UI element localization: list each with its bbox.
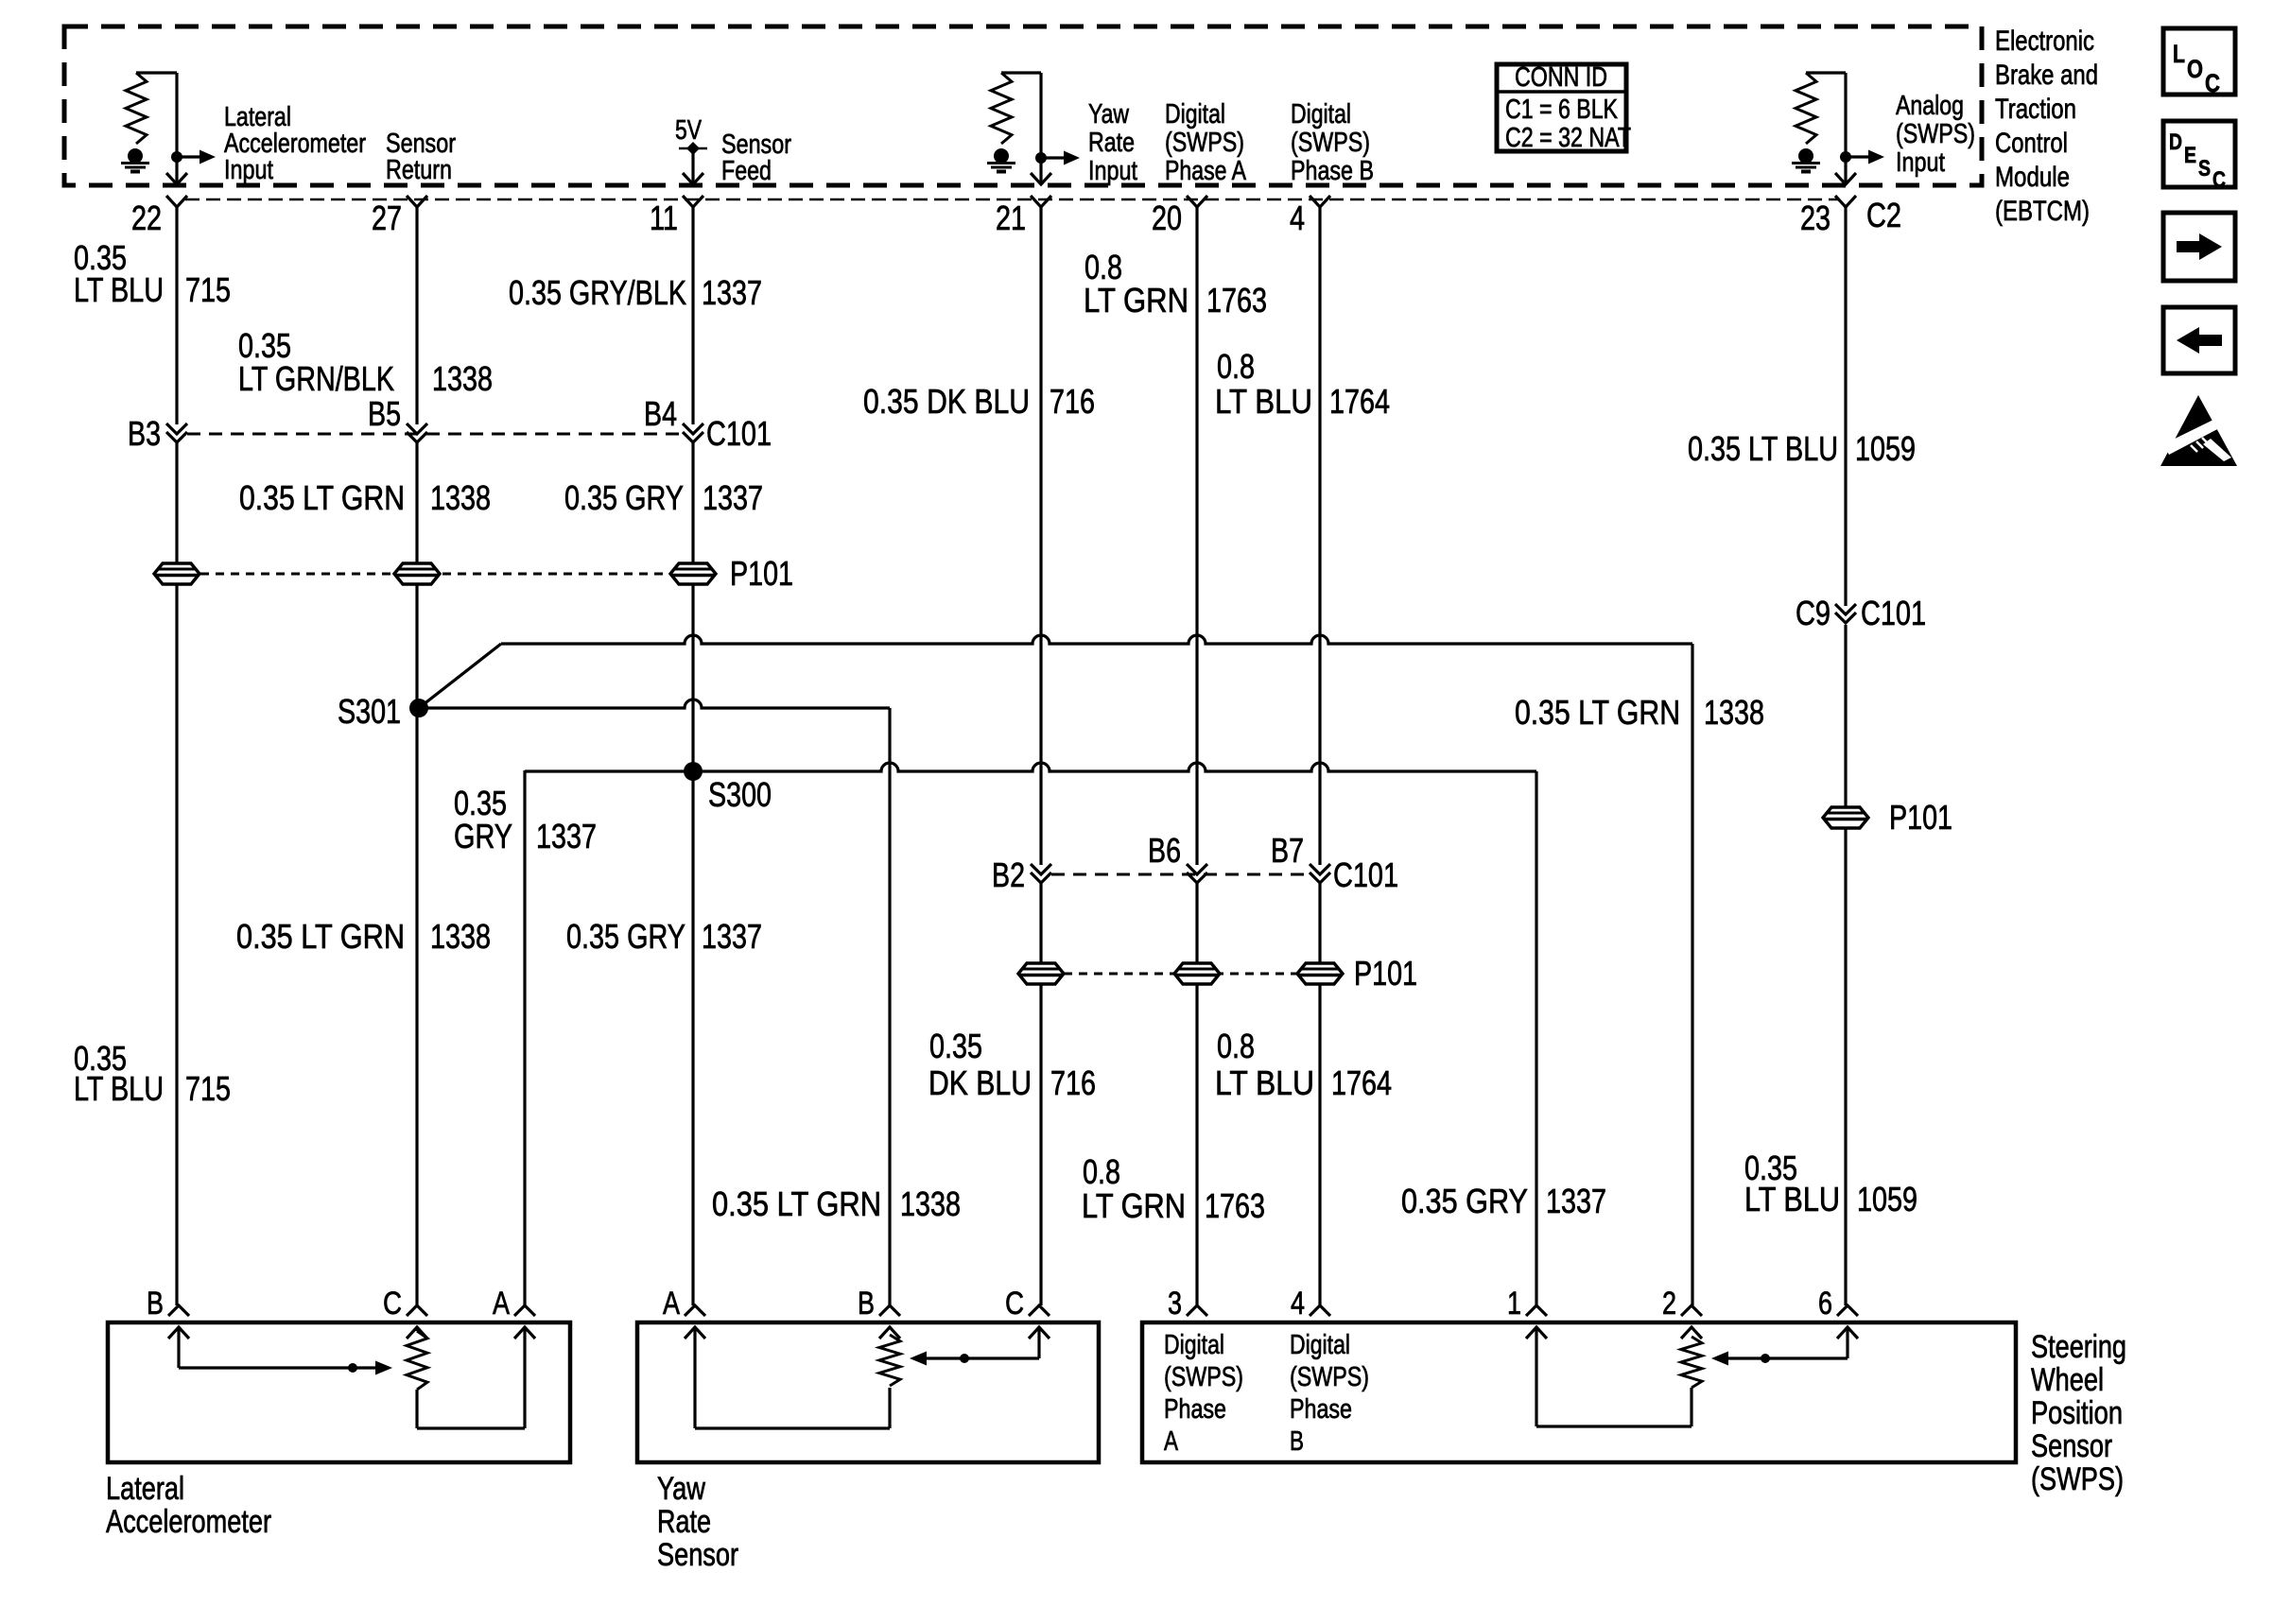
label 0.8 LT BLU 1764 upper xyxy=(1215,347,1390,421)
Yaw Rate Sensor pin B entry arrow xyxy=(879,1327,900,1339)
svg-text:B7: B7 xyxy=(1271,831,1304,870)
arrow to Yaw Rate Input label xyxy=(1041,151,1080,165)
svg-text:Traction: Traction xyxy=(1995,94,2076,125)
grommet P101 on wire 1763 xyxy=(1174,963,1220,984)
svg-text:LT GRN: LT GRN xyxy=(1082,1186,1186,1225)
grommet P101 on wire 1764 xyxy=(1297,963,1343,984)
wire 716 DK BLU B2 through P101 to Yaw Rate Sensor pin C xyxy=(1039,883,1042,1305)
svg-text:A: A xyxy=(663,1286,680,1322)
CONN ID table xyxy=(1497,62,1631,153)
svg-text:0.8: 0.8 xyxy=(1217,347,1255,386)
Lateral Accelerometer box xyxy=(108,1322,570,1462)
arrow to Analog SWPS Input label xyxy=(1846,150,1884,164)
svg-text:B2: B2 xyxy=(992,855,1025,894)
label 0.35 GRY/BLK 1337 xyxy=(509,273,762,312)
svg-text:A: A xyxy=(1164,1426,1179,1457)
label 0.8 LT BLU 1764 lower xyxy=(1215,1027,1392,1102)
dashed line P101 row 1 xyxy=(200,573,670,576)
svg-text:0.35 DK BLU: 0.35 DK BLU xyxy=(863,382,1030,421)
svg-text:716: 716 xyxy=(1050,382,1095,421)
EBTCM pin 21 connector chevron xyxy=(1031,196,1051,207)
bottom connector chevron pin B at x=189 xyxy=(168,1305,189,1316)
svg-text:1337: 1337 xyxy=(702,917,762,956)
resistor inside EBTCM on Yaw Rate Input (pin 21) xyxy=(991,73,1041,144)
wire 1338 LT GRN B5 to S301 to Lateral Accelerometer pin C xyxy=(415,442,418,1305)
label 0.35 LT GRN/BLK 1338 xyxy=(238,326,493,398)
EBTCM pin 20 connector chevron xyxy=(1187,196,1207,207)
svg-text:Input: Input xyxy=(224,155,273,185)
pin label Digital (SWPS) Phase B xyxy=(1291,99,1374,186)
svg-text:715: 715 xyxy=(185,270,231,309)
arrow to Lateral Accelerometer Input label xyxy=(177,150,216,164)
module name Electronic Brake and Traction Control Module (EBTCM) xyxy=(1995,26,2098,227)
grommet P101 on wire 1059 xyxy=(1823,807,1868,828)
svg-text:1338: 1338 xyxy=(430,478,491,517)
ground symbol below pin-23 resistor xyxy=(1792,148,1820,172)
svg-text:B6: B6 xyxy=(1148,831,1181,870)
svg-text:C101: C101 xyxy=(706,414,772,453)
svg-text:Yaw: Yaw xyxy=(1088,99,1130,130)
wire 715 LT BLU B3 to Lateral Accelerometer pin B (through P101) xyxy=(175,442,178,1305)
inline connector B2 xyxy=(1031,864,1051,874)
SWPS pin 1 entry arrow xyxy=(1526,1327,1547,1426)
svg-text:C: C xyxy=(383,1286,402,1322)
label 0.8 LT GRN 1763 lower xyxy=(1082,1152,1265,1225)
wire 1764 LT BLU B7 through P101 to SWPS pin 4 xyxy=(1318,883,1321,1305)
wire EBTCM pin 23 internal vertical xyxy=(1844,73,1847,183)
svg-text:4: 4 xyxy=(1290,199,1305,237)
svg-text:B3: B3 xyxy=(128,414,161,453)
label 0.35 LT BLU 715 lower xyxy=(74,1039,231,1108)
svg-text:S: S xyxy=(2198,156,2211,181)
svg-text:Phase: Phase xyxy=(1164,1394,1226,1425)
svg-text:Sensor: Sensor xyxy=(657,1537,738,1573)
svg-text:Digital: Digital xyxy=(1164,1330,1224,1360)
svg-text:20: 20 xyxy=(1152,199,1182,237)
pin label Yaw Rate Input xyxy=(1088,99,1137,186)
S301 diagonal riser xyxy=(419,644,501,708)
grommet P101 on wire 716 xyxy=(1018,963,1064,984)
svg-text:1338: 1338 xyxy=(1704,693,1764,732)
svg-text:Digital: Digital xyxy=(1165,99,1225,130)
bottom connector chevron pin 1 at x=1625 xyxy=(1526,1305,1547,1316)
svg-text:22: 22 xyxy=(131,199,162,237)
svg-text:1764: 1764 xyxy=(1331,1063,1392,1102)
wire 1338 LT GRN S301 branch down to SWPS pin 2 xyxy=(1691,644,1693,1305)
wire 1338 LT GRN S301 horizontal run to SWPS pin 2 drop xyxy=(501,635,1692,644)
EBTCM pin 27 connector chevron xyxy=(407,196,427,207)
pin label Sensor Return xyxy=(386,129,456,185)
svg-text:P101: P101 xyxy=(1354,954,1417,993)
resistor inside EBTCM on Lateral Accelerometer Input (pin 22) xyxy=(126,73,177,144)
svg-text:Position: Position xyxy=(2031,1395,2123,1431)
svg-text:Wheel: Wheel xyxy=(2031,1362,2104,1398)
svg-text:21: 21 xyxy=(996,199,1026,237)
label 0.35 LT GRN 1338 lower-left xyxy=(236,917,491,956)
potentiometer resistor inside Lateral Accelerometer xyxy=(407,1331,427,1390)
svg-text:S301: S301 xyxy=(338,692,401,731)
svg-text:4: 4 xyxy=(1291,1286,1305,1322)
svg-text:0.35 GRY: 0.35 GRY xyxy=(1401,1182,1528,1220)
label 0.35 GRY 1337 below S300 xyxy=(454,784,597,855)
label 0.35 LT BLU 1059 upper xyxy=(1688,429,1916,468)
svg-text:0.35 LT GRN: 0.35 LT GRN xyxy=(712,1184,881,1223)
svg-text:E: E xyxy=(2184,143,2196,168)
wire 1764 LT BLU pin4 to B7 xyxy=(1318,207,1321,865)
svg-text:LT BLU: LT BLU xyxy=(1215,382,1312,421)
svg-text:1: 1 xyxy=(1507,1286,1521,1322)
label 0.35 LT GRN 1338 bottom-mid xyxy=(712,1184,961,1223)
wire 1337 GRY S300 horizontal run to SWPS pin 1 drop xyxy=(525,763,1536,771)
svg-text:1337: 1337 xyxy=(703,478,763,517)
svg-text:B: B xyxy=(147,1286,164,1322)
wire 1059 LT BLU pin23 to C9 xyxy=(1844,207,1847,606)
label Lateral Accelerometer xyxy=(106,1471,271,1540)
svg-text:Phase A: Phase A xyxy=(1165,156,1247,186)
svg-text:1337: 1337 xyxy=(536,817,597,855)
svg-text:(SWPS): (SWPS) xyxy=(1291,128,1370,158)
svg-text:Lateral: Lateral xyxy=(106,1471,184,1507)
svg-text:716: 716 xyxy=(1050,1063,1096,1102)
Steering Wheel Position Sensor box xyxy=(1142,1322,2016,1462)
dashed connector line B3-B5-B4 xyxy=(187,433,683,436)
Yaw Rate Sensor box xyxy=(637,1322,1099,1462)
svg-text:1059: 1059 xyxy=(1857,1180,1917,1218)
label 0.35 LT GRN 1338 mid xyxy=(239,478,491,517)
wire 1059 LT BLU C101 through P101 to SWPS pin 6 xyxy=(1844,625,1847,1305)
bottom connector chevron pin A at x=735 xyxy=(685,1305,705,1316)
wire 716 DK BLU pin21 to B2 xyxy=(1039,207,1042,865)
wire 1338 LT GRN S301 horizontal branch to Yaw pin B drop xyxy=(419,700,890,708)
bottom connector chevron pin 6 at x=1954 xyxy=(1837,1305,1858,1316)
Yaw Rate Sensor pin C entry arrow xyxy=(1029,1327,1050,1358)
svg-text:Steering: Steering xyxy=(2031,1329,2126,1365)
dashed connector line B2-B6-B7 xyxy=(1051,873,1310,876)
svg-text:Module: Module xyxy=(1995,162,2070,193)
right arrow icon box xyxy=(2163,213,2235,281)
svg-text:P101: P101 xyxy=(730,554,793,593)
svg-text:0.35 LT GRN: 0.35 LT GRN xyxy=(239,478,405,517)
svg-text:1338: 1338 xyxy=(900,1184,961,1223)
bottom connector chevron pin 2 at x=1789 xyxy=(1681,1305,1702,1316)
Yaw Rate Sensor wiper wire with dot and left arrow xyxy=(910,1352,1039,1366)
svg-text:11: 11 xyxy=(650,199,678,237)
left arrow icon box xyxy=(2163,307,2235,373)
5V supply terminal at pin 11 xyxy=(675,115,707,184)
junction dot pin 22 internal xyxy=(171,151,182,163)
EBTCM pin 23 connector chevron xyxy=(1835,196,1856,207)
svg-text:O: O xyxy=(2187,55,2203,83)
wire 1337 GRY/BLK pin11 to B4 xyxy=(691,207,694,424)
svg-text:DK BLU: DK BLU xyxy=(928,1063,1032,1102)
EBTCM pin 4 connector chevron xyxy=(1310,196,1330,207)
label 0.35 GRY 1337 lower xyxy=(566,917,762,956)
SWPS wiper wire with dot and left arrow xyxy=(1711,1352,1848,1366)
wire 1337 GRY B4 through P101 S300 to Yaw Rate Sensor pin A xyxy=(691,442,694,1305)
dashed line P101 row 2 xyxy=(1064,973,1297,976)
svg-text:L: L xyxy=(2173,40,2185,68)
EBTCM connector face dashed line xyxy=(185,199,1839,201)
svg-text:0.8: 0.8 xyxy=(1217,1027,1255,1065)
inline connector B3 xyxy=(166,423,187,434)
splice S300 xyxy=(684,762,703,781)
svg-text:LT BLU: LT BLU xyxy=(1215,1063,1314,1102)
inline connector B7 xyxy=(1310,864,1330,874)
svg-text:LT GRN: LT GRN xyxy=(1084,281,1189,320)
svg-text:5V: 5V xyxy=(675,115,703,146)
inline connector B5 xyxy=(407,423,427,434)
grommet P101 on wire 1337 xyxy=(670,563,716,584)
svg-text:C2: C2 xyxy=(1866,196,1901,234)
label Yaw Rate Sensor xyxy=(657,1471,738,1573)
svg-text:B: B xyxy=(1290,1426,1304,1457)
open arrow down at pin 21 module border xyxy=(1031,173,1051,184)
bottom connector chevron pin A at x=555 xyxy=(514,1305,535,1316)
svg-text:0.35 GRY/BLK: 0.35 GRY/BLK xyxy=(509,273,686,312)
svg-text:Phase: Phase xyxy=(1290,1394,1352,1425)
svg-text:(SWPS): (SWPS) xyxy=(2031,1461,2124,1497)
svg-text:B4: B4 xyxy=(644,394,677,433)
svg-text:Accelerometer: Accelerometer xyxy=(106,1504,271,1540)
svg-text:27: 27 xyxy=(372,199,402,237)
potentiometer resistor inside SWPS xyxy=(1681,1337,1702,1388)
svg-text:Control: Control xyxy=(1995,128,2068,159)
svg-text:CONN ID: CONN ID xyxy=(1515,62,1607,93)
junction dot pin 23 internal xyxy=(1840,151,1851,163)
svg-text:Rate: Rate xyxy=(1088,128,1135,158)
svg-text:Phase B: Phase B xyxy=(1291,156,1374,186)
svg-text:LT BLU: LT BLU xyxy=(74,270,164,309)
bottom connector chevron pin B at x=941 xyxy=(879,1305,900,1316)
svg-text:1763: 1763 xyxy=(1206,281,1267,320)
EBTCM pin 11 connector chevron xyxy=(683,196,703,207)
svg-text:3: 3 xyxy=(1168,1286,1182,1322)
open arrow down at pin 22 module border xyxy=(166,173,187,184)
label 0.35 GRY 1337 mid xyxy=(564,478,763,517)
svg-text:Brake and: Brake and xyxy=(1995,60,2098,91)
svg-text:C101: C101 xyxy=(1861,594,1926,632)
potentiometer resistor inside Yaw Rate Sensor xyxy=(879,1335,900,1386)
bottom connector chevron pin 3 at x=1266 xyxy=(1187,1305,1207,1316)
svg-text:Electronic: Electronic xyxy=(1995,26,2094,57)
DESC icon box xyxy=(2163,121,2235,193)
bottom connector chevron pin C at x=1099 xyxy=(1029,1305,1050,1316)
bottom connector chevron pin C at x=441 xyxy=(407,1305,427,1316)
svg-text:1337: 1337 xyxy=(702,273,762,312)
svg-text:(SWPS): (SWPS) xyxy=(1164,1362,1243,1392)
svg-text:LT BLU: LT BLU xyxy=(74,1069,164,1108)
svg-text:D: D xyxy=(2169,130,2182,155)
svg-text:2: 2 xyxy=(1662,1286,1676,1322)
svg-text:1059: 1059 xyxy=(1855,429,1916,468)
svg-text:Rate: Rate xyxy=(657,1504,711,1540)
open arrow down at pin 23 module border xyxy=(1835,173,1856,184)
pin label Analog (SWPS) Input xyxy=(1896,91,1975,178)
label Steering Wheel Position Sensor (SWPS) xyxy=(2031,1329,2126,1497)
label 0.35 DK BLU 716 lower xyxy=(928,1027,1096,1102)
wire EBTCM pin 21 internal vertical xyxy=(1039,73,1042,183)
svg-text:0.35 LT GRN: 0.35 LT GRN xyxy=(236,917,405,956)
svg-text:1764: 1764 xyxy=(1329,382,1390,421)
label 0.35 LT GRN 1338 right xyxy=(1515,693,1764,732)
wire 1763 LT GRN pin20 to B6 xyxy=(1195,207,1198,865)
resistor inside EBTCM on Analog SWPS Input (pin 23) xyxy=(1796,73,1846,144)
Yaw Rate Sensor pin A to resistor bottom link xyxy=(695,1388,890,1428)
svg-text:LT GRN/BLK: LT GRN/BLK xyxy=(238,359,394,398)
svg-text:Yaw: Yaw xyxy=(657,1471,705,1507)
Lateral Accelerometer pin C entry arrow xyxy=(407,1327,427,1339)
svg-text:1763: 1763 xyxy=(1205,1186,1265,1225)
pin label Lateral Accelerometer Input xyxy=(224,102,366,185)
svg-text:23: 23 xyxy=(1800,199,1831,237)
svg-text:B5: B5 xyxy=(368,394,401,433)
bottom connector chevron pin 4 at x=1396 xyxy=(1310,1305,1330,1316)
svg-text:6: 6 xyxy=(1818,1286,1832,1322)
ground symbol below pin-21 resistor xyxy=(987,148,1015,172)
svg-text:Input: Input xyxy=(1088,156,1137,186)
svg-text:0.35: 0.35 xyxy=(929,1027,982,1065)
Lateral Accelerometer wiper wire with dot and arrow xyxy=(179,1361,392,1375)
wire 1763 LT GRN B6 through P101 to SWPS pin 3 xyxy=(1195,883,1198,1305)
label 0.8 LT GRN 1763 upper xyxy=(1084,248,1267,320)
svg-text:1337: 1337 xyxy=(1546,1182,1606,1220)
svg-text:Input: Input xyxy=(1896,147,1945,178)
SWPS internal label Digital (SWPS) Phase B xyxy=(1290,1330,1369,1457)
wire 1338 LT GRN/BLK pin27 to B5 xyxy=(415,207,418,424)
SWPS pin 2 entry arrow xyxy=(1681,1327,1702,1339)
svg-text:C: C xyxy=(2205,69,2220,97)
svg-text:0.35 GRY: 0.35 GRY xyxy=(566,917,685,956)
svg-text:715: 715 xyxy=(185,1069,231,1108)
EBTCM module dashed outline box xyxy=(64,26,1982,185)
svg-text:0.8: 0.8 xyxy=(1083,1152,1120,1191)
svg-text:0.35 LT GRN: 0.35 LT GRN xyxy=(1515,693,1680,732)
Lateral Accelerometer pin A entry arrow xyxy=(514,1327,535,1339)
SWPS pin 1 to resistor bottom link xyxy=(1536,1388,1692,1426)
svg-text:(EBTCM): (EBTCM) xyxy=(1995,196,2090,227)
svg-text:C2 = 32 NAT: C2 = 32 NAT xyxy=(1505,123,1631,153)
svg-text:Digital: Digital xyxy=(1290,1330,1350,1360)
wire 715 LT BLU pin22 to B3 xyxy=(175,207,178,424)
pin label Digital (SWPS) Phase A xyxy=(1165,99,1247,186)
wire 1337 GRY S300 branch down to SWPS pin 1 xyxy=(1535,771,1537,1305)
wire 1337 GRY S300 branch down to Lateral Accelerometer pin A xyxy=(523,770,526,1305)
svg-text:C1 = 6 BLK: C1 = 6 BLK xyxy=(1505,95,1619,125)
pin label Sensor Feed xyxy=(721,130,791,186)
svg-text:C101: C101 xyxy=(1333,855,1398,894)
ground symbol below pin-22 resistor xyxy=(121,148,149,172)
SWPS internal label Digital (SWPS) Phase A xyxy=(1164,1330,1243,1457)
svg-text:1338: 1338 xyxy=(430,917,491,956)
svg-text:0.35 LT BLU: 0.35 LT BLU xyxy=(1688,429,1838,468)
svg-text:Analog: Analog xyxy=(1896,91,1964,121)
label 0.35 GRY 1337 bottom-right xyxy=(1401,1182,1606,1220)
Yaw Rate Sensor pin A entry arrow xyxy=(685,1327,705,1428)
grommet P101 on wire 715 xyxy=(154,563,200,584)
svg-text:C9: C9 xyxy=(1796,594,1831,632)
svg-text:LT BLU: LT BLU xyxy=(1744,1180,1840,1218)
junction dot pin 21 internal xyxy=(1035,152,1047,164)
inline connector C9-C101 on wire 1059 xyxy=(1835,604,1856,614)
svg-text:P101: P101 xyxy=(1889,798,1952,837)
EBTCM pin 22 connector chevron xyxy=(166,196,187,207)
inline connector B6 xyxy=(1187,864,1207,874)
label 0.35 DK BLU 716 upper xyxy=(863,382,1095,421)
wire 1338 LT GRN S301 branch down to Yaw Rate Sensor pin B xyxy=(888,708,891,1305)
svg-text:A: A xyxy=(493,1286,510,1322)
label 0.35 LT BLU 1059 lower xyxy=(1744,1149,1917,1218)
wire EBTCM pin 22 internal vertical xyxy=(175,73,178,183)
inline connector B4 xyxy=(683,423,703,434)
ESD warning triangle icon xyxy=(2160,395,2237,466)
svg-text:(SWPS): (SWPS) xyxy=(1290,1362,1369,1392)
svg-text:Return: Return xyxy=(386,155,452,185)
svg-text:B: B xyxy=(858,1286,875,1322)
svg-text:C: C xyxy=(2212,167,2226,193)
svg-text:(SWPS): (SWPS) xyxy=(1165,128,1244,158)
LOC icon box xyxy=(2163,28,2235,97)
grommet P101 on wire 1338 xyxy=(394,563,440,584)
svg-text:C: C xyxy=(1005,1286,1024,1322)
SWPS pin 6 entry arrow xyxy=(1837,1327,1858,1358)
svg-text:S300: S300 xyxy=(708,775,772,814)
svg-text:(SWPS): (SWPS) xyxy=(1896,119,1975,149)
svg-text:GRY: GRY xyxy=(454,817,512,855)
Lateral Accelerometer resistor to pin A link xyxy=(417,1327,525,1428)
label 0.35 LT BLU 715 upper xyxy=(74,238,231,309)
svg-text:0.35 GRY: 0.35 GRY xyxy=(564,478,684,517)
svg-text:1338: 1338 xyxy=(432,359,493,398)
Lateral Accelerometer pin B entry arrow xyxy=(168,1327,189,1368)
svg-text:Feed: Feed xyxy=(721,156,772,186)
splice S301 xyxy=(409,699,428,717)
svg-text:Sensor: Sensor xyxy=(2031,1428,2112,1464)
svg-text:Digital: Digital xyxy=(1291,99,1351,130)
